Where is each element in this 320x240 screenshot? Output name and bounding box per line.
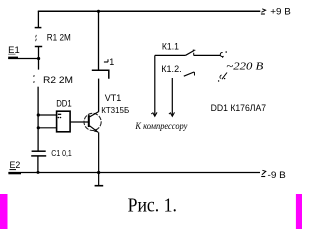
- electrode Е2: [8, 160, 21, 173]
- junction collector node on +9V rail: [97, 10, 100, 13]
- svg-text:Рис. 1.: Рис. 1.: [128, 195, 177, 217]
- wire emitter to ground bar: [98, 132, 100, 185]
- svg-text:К1.2.: К1.2.: [161, 64, 181, 74]
- transistor VT1: [84, 112, 101, 133]
- arrow К1.1 to mains: [220, 51, 227, 58]
- wire К1.2 to load: [171, 78, 173, 116]
- svg-text:R1 2М: R1 2М: [47, 33, 71, 43]
- wire C1 to -9V rail: [37, 156, 39, 173]
- svg-text:Е1: Е1: [8, 45, 20, 55]
- IC gate DD1.1 box: [57, 111, 71, 132]
- svg-text:DD1: DD1: [56, 98, 71, 108]
- switch contact К1.2: [184, 72, 195, 76]
- relay coil К1: [92, 70, 109, 79]
- electrode Е1: [8, 45, 38, 59]
- svg-text:R2 2М: R2 2М: [43, 75, 73, 85]
- capacitor C1: [31, 151, 46, 156]
- wire R1 to node A and R2: [38, 47, 40, 70]
- svg-text:К компрессору: К компрессору: [135, 122, 189, 132]
- wire VT1 collector to relay coil: [98, 79, 100, 112]
- junction node A: [37, 57, 40, 60]
- magenta page marker right: [296, 194, 302, 229]
- svg-text:~220 В: ~220 В: [226, 60, 263, 72]
- wire +9V top rail: [38, 10, 260, 12]
- wire DD1 output to VT1 base: [70, 121, 88, 123]
- switch contact К1.1: [155, 50, 220, 56]
- junction emitter rail: [97, 171, 100, 174]
- wire to DD1 input 1: [38, 114, 56, 116]
- label relay coil: [104, 57, 114, 67]
- svg-text:КТ315Б: КТ315Б: [101, 105, 129, 115]
- arrow from mains К1.2: [218, 73, 227, 82]
- wire to DD1 input 2: [38, 127, 56, 129]
- wire R2 to C1: [37, 87, 39, 152]
- svg-text:Е2: Е2: [10, 160, 21, 170]
- magenta page marker left: [0, 194, 8, 229]
- arrow to load 1: [151, 112, 157, 116]
- gate symbol: [58, 114, 62, 118]
- wire rail to relay coil: [98, 11, 100, 70]
- wire К1.1 to load: [154, 55, 156, 116]
- junction C1 rail: [37, 171, 40, 174]
- svg-text:-9 В: -9 В: [268, 170, 286, 181]
- junction DD1 input 1: [37, 113, 40, 116]
- wire -9V rail: [8, 172, 260, 174]
- arrow +9V rail end: [261, 9, 266, 14]
- svg-text:К1.1: К1.1: [162, 42, 179, 52]
- ground chassis bar: [95, 185, 104, 187]
- svg-text:VT1: VT1: [105, 93, 122, 103]
- svg-text:С1 0,1: С1 0,1: [51, 149, 72, 158]
- junction DD1 input 2: [37, 126, 40, 129]
- arrow to load 2: [169, 112, 175, 116]
- svg-text:DD1 К176ЛА7: DD1 К176ЛА7: [211, 103, 267, 113]
- wire rail to R1: [37, 11, 39, 27]
- resistor R2: [33, 75, 36, 83]
- svg-text:+9 В: +9 В: [270, 6, 291, 17]
- arrow -9V rail end: [261, 170, 266, 176]
- svg-text:1: 1: [109, 57, 114, 67]
- resistor R1: [35, 28, 43, 47]
